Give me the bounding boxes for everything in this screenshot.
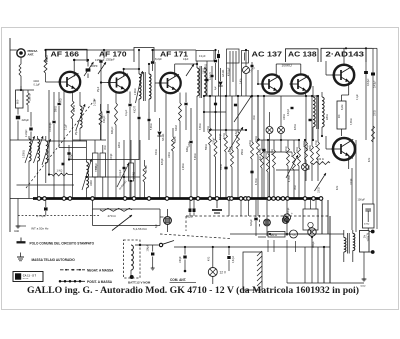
capacitor C12 det bbox=[215, 50, 217, 59]
volume pot arrow long bbox=[234, 95, 252, 122]
svg-text:40Ω77: 40Ω77 bbox=[134, 105, 137, 113]
capacitor 15KpF bbox=[152, 245, 154, 252]
volume pot 470ohm box bbox=[93, 200, 161, 209]
mid column 124 bbox=[123, 140, 125, 199]
antenna jack PRESA ANT. bbox=[17, 49, 25, 57]
tuning coil L4 variable bbox=[45, 136, 47, 141]
horizontal y147 bbox=[59, 147, 86, 149]
wire col49 bbox=[48, 90, 50, 160]
svg-text:110μF: 110μF bbox=[120, 169, 122, 176]
svg-text:AF 166: AF 166 bbox=[51, 49, 80, 58]
svg-text:1 KΩ: 1 KΩ bbox=[57, 169, 63, 173]
AC resistor network bbox=[261, 140, 263, 150]
cap blob row1 bbox=[58, 103, 61, 105]
svg-text:10KΩ: 10KΩ bbox=[203, 68, 205, 74]
wire AF170 collector bbox=[123, 69, 125, 76]
AF171 collector wire bbox=[174, 64, 176, 77]
right rails bbox=[355, 140, 357, 232]
resistor R7 180ohm bbox=[172, 128, 174, 137]
wire left link bbox=[10, 139, 46, 141]
svg-text:10KΩ: 10KΩ bbox=[250, 140, 252, 146]
electrolytic CE2 bbox=[280, 96, 282, 126]
tuning coil L3 variable bbox=[37, 136, 39, 139]
diode D2 AA121 bbox=[220, 68, 222, 81]
transistor Q5 AC138 bbox=[291, 74, 310, 93]
svg-text:13 pF: 13 pF bbox=[199, 54, 206, 58]
wire AF170 base bbox=[101, 82, 110, 84]
svg-text:2,2KΩ: 2,2KΩ bbox=[183, 163, 185, 170]
svg-text:100Ω: 100Ω bbox=[319, 187, 321, 193]
svg-text:800 Ω: 800 Ω bbox=[72, 105, 76, 112]
svg-text:NEGAT. A MASSA: NEGAT. A MASSA bbox=[87, 269, 114, 273]
det caps row bbox=[214, 103, 217, 106]
ground G3 bbox=[152, 266, 154, 268]
IF transformer T2 coils bbox=[138, 50, 140, 74]
capacitor C4 68PF bbox=[86, 68, 91, 71]
legend posit a massa bbox=[59, 280, 85, 282]
long row y247 feed bbox=[174, 246, 330, 248]
svg-text:R.F.: R.F. bbox=[339, 114, 341, 118]
AF171 emitter col bbox=[165, 93, 167, 199]
switch S1 bbox=[159, 243, 162, 246]
capacitor C10 680 bbox=[190, 108, 192, 140]
ground G2 bus bbox=[216, 200, 218, 208]
capacitor C8 8.2pF bbox=[151, 61, 154, 64]
cap 110 bbox=[123, 167, 126, 169]
horiz segs AC bbox=[264, 151, 292, 153]
wire AD143l emitter to output bbox=[351, 168, 353, 230]
svg-text:12 V: 12 V bbox=[220, 271, 227, 275]
capacitor C1 electrolytic 420uF bbox=[17, 108, 19, 115]
svg-text:470Ω: 470Ω bbox=[364, 224, 370, 226]
wire switch feed bbox=[135, 244, 159, 246]
dashed bottom left wire bbox=[18, 215, 100, 217]
resistor R1 330ohm bbox=[27, 90, 29, 93]
transistor Q3 AF171 bbox=[160, 73, 180, 93]
svg-text:322μF: 322μF bbox=[250, 219, 253, 226]
svg-text:600μ: 600μ bbox=[186, 146, 189, 152]
svg-text:330Ω: 330Ω bbox=[156, 149, 158, 155]
mid column 140 bbox=[139, 140, 141, 177]
stubs below bus bbox=[228, 200, 230, 216]
svg-text:5,6μF: 5,6μF bbox=[236, 129, 238, 136]
svg-text:ΩΩΩ: ΩΩΩ bbox=[14, 231, 19, 233]
detector columns bbox=[209, 96, 211, 128]
trimmer arrow A bbox=[84, 62, 94, 76]
svg-text:13μF: 13μF bbox=[183, 58, 189, 61]
capacitor 322uF bbox=[255, 200, 257, 217]
capacitor 0.1uF double bbox=[189, 200, 191, 208]
res 100K mid bbox=[129, 163, 134, 181]
svg-text:0,1μF: 0,1μF bbox=[66, 123, 68, 130]
svg-text:+: + bbox=[291, 212, 293, 216]
speaker terminals bbox=[371, 230, 375, 234]
svg-text:MASSA TELAIO AUTORADIO: MASSA TELAIO AUTORADIO bbox=[32, 258, 76, 262]
res 22K mid bbox=[143, 166, 146, 182]
wire AF171 base bbox=[155, 82, 161, 84]
svg-text:4,7KΩ: 4,7KΩ bbox=[289, 175, 291, 182]
svg-text:13KpF: 13KpF bbox=[180, 256, 182, 263]
svg-text:33KΩ: 33KΩ bbox=[175, 125, 178, 131]
svg-text:1KΩ: 1KΩ bbox=[105, 145, 107, 150]
svg-text:10KΩ: 10KΩ bbox=[297, 147, 299, 153]
wire top right bbox=[366, 47, 372, 49]
wire AF166 top bbox=[46, 49, 87, 51]
wire AD143u emitter bbox=[348, 81, 350, 95]
svg-text:1KΩ: 1KΩ bbox=[254, 115, 256, 120]
resistor 100ohm h bbox=[312, 162, 330, 165]
svg-text:2-22pF: 2-22pF bbox=[93, 98, 96, 106]
horizontal y177 bbox=[86, 176, 140, 178]
svg-text:22 KΩ: 22 KΩ bbox=[146, 165, 148, 172]
wire AD143l base bbox=[326, 148, 333, 150]
electrolytic CE1 bbox=[269, 112, 271, 126]
ground bus thick bbox=[33, 197, 322, 200]
svg-text:100Ω: 100Ω bbox=[375, 110, 377, 116]
transistor Q6 AD143 upper bbox=[334, 65, 354, 85]
label box 2xAD143 bbox=[321, 48, 366, 62]
svg-text:4,7KΩ: 4,7KΩ bbox=[61, 98, 63, 105]
svg-text:0,47μF: 0,47μF bbox=[374, 80, 377, 88]
svg-text:580 Ω: 580 Ω bbox=[270, 233, 277, 237]
svg-text:POSIT. A MASSA: POSIT. A MASSA bbox=[87, 280, 113, 284]
capacitor C2 47uF bbox=[67, 152, 70, 155]
svg-text:6μF: 6μF bbox=[156, 223, 158, 228]
svg-text:AF 171: AF 171 bbox=[160, 49, 188, 58]
svg-text:8,2KΩ: 8,2KΩ bbox=[195, 153, 197, 160]
wire top left horizontal bbox=[10, 49, 17, 51]
verticals below bus right bbox=[304, 200, 306, 209]
wires into transformer bbox=[323, 247, 325, 283]
svg-text:0,47μF: 0,47μF bbox=[367, 78, 370, 86]
svg-text:10KΩ: 10KΩ bbox=[208, 126, 210, 132]
svg-text:10.000pF: 10.000pF bbox=[49, 121, 52, 132]
svg-text:5KΩ: 5KΩ bbox=[309, 165, 311, 170]
wire AF171 top rail bbox=[154, 49, 196, 51]
legend massa telaio bbox=[20, 253, 22, 257]
svg-text:4Ω: 4Ω bbox=[363, 235, 366, 238]
electrolytic CE6 bbox=[264, 219, 271, 226]
svg-text:47KΩ: 47KΩ bbox=[224, 133, 226, 139]
bus junction rings bbox=[37, 197, 41, 201]
horizontal y140 b bbox=[73, 139, 106, 141]
top feed wires detector bbox=[206, 61, 208, 96]
resistor box R82 bbox=[337, 101, 346, 129]
caps row AC bbox=[291, 107, 294, 109]
ground G1 bbox=[17, 140, 19, 224]
pot arrow bias bbox=[315, 173, 327, 191]
svg-text:4,7KΩ: 4,7KΩ bbox=[316, 140, 318, 147]
cap under IF bbox=[138, 117, 141, 119]
svg-text:8,2pF: 8,2pF bbox=[155, 57, 162, 61]
coil small box pair bbox=[93, 153, 99, 177]
svg-text:100pF: 100pF bbox=[351, 178, 353, 185]
driver transformer T4 bbox=[312, 86, 314, 97]
resistor R5 52K bbox=[100, 104, 102, 111]
capacitor C7 1350pF bbox=[103, 50, 105, 59]
svg-text:47Ω: 47Ω bbox=[209, 256, 211, 261]
svg-text:5KΩ: 5KΩ bbox=[292, 152, 294, 157]
horizontal y159 bbox=[69, 159, 139, 161]
svg-text:3,3KΩ: 3,3KΩ bbox=[260, 148, 262, 155]
mid column 135 bbox=[134, 160, 136, 199]
svg-text:GALLO ing. G. - Autoradio: GALLO ing. G. - Autoradio Mod. GK 4710 -… bbox=[27, 285, 359, 296]
svg-text:AA121: AA121 bbox=[222, 69, 225, 77]
svg-text:3,3KΩ: 3,3KΩ bbox=[351, 118, 353, 125]
capacitor C 13pF body bbox=[217, 54, 220, 58]
svg-text:25KΩ: 25KΩ bbox=[266, 153, 268, 159]
logo box bbox=[13, 272, 43, 282]
thermistor TH1 bbox=[243, 67, 250, 74]
lamp LP1 bbox=[164, 217, 172, 225]
res 33K bbox=[179, 93, 181, 104]
svg-text:22KΩ: 22KΩ bbox=[256, 136, 258, 142]
svg-text:5,4-56 KΩ: 5,4-56 KΩ bbox=[133, 227, 147, 231]
bus left tail bbox=[10, 198, 33, 200]
svg-text:4,7KΩ: 4,7KΩ bbox=[256, 178, 258, 185]
svg-text:PTΩΩ: PTΩΩ bbox=[290, 234, 296, 236]
svg-text:330 Ω: 330 Ω bbox=[28, 94, 32, 101]
svg-text:15KΩ: 15KΩ bbox=[45, 55, 49, 62]
svg-text:ANT.: ANT. bbox=[28, 53, 35, 57]
svg-text:COM. ANT.: COM. ANT. bbox=[170, 278, 186, 282]
res right rail bbox=[372, 126, 375, 142]
svg-text:180 Ω: 180 Ω bbox=[174, 136, 177, 143]
capacitor C9 bbox=[129, 92, 131, 104]
col 160 wire bbox=[160, 93, 162, 119]
svg-text:2,2KΩ: 2,2KΩ bbox=[135, 88, 137, 95]
svg-text:10KΩ: 10KΩ bbox=[169, 152, 171, 158]
speaker box ALTOP bbox=[360, 231, 370, 253]
svg-text:5,6KΩ: 5,6KΩ bbox=[151, 123, 153, 130]
output coupling box bbox=[303, 209, 318, 230]
svg-text:47KΩ: 47KΩ bbox=[272, 149, 274, 155]
svg-text:47KpF: 47KpF bbox=[162, 158, 164, 165]
lower right verticals bbox=[304, 247, 306, 283]
resistors right of AC138 bbox=[305, 96, 307, 142]
wire AD143l emitter bbox=[348, 155, 350, 169]
svg-text:2-22pF: 2-22pF bbox=[25, 129, 28, 137]
resistor R3 15K bbox=[45, 50, 47, 57]
svg-text:100 Ω: 100 Ω bbox=[317, 158, 324, 161]
svg-text:0,47μF: 0,47μF bbox=[230, 146, 232, 154]
transistor Q1 AF166 bbox=[60, 72, 80, 92]
horizontal det y96 bbox=[204, 95, 258, 97]
svg-text:4,7 KpF: 4,7 KpF bbox=[36, 214, 46, 218]
long row y234 bbox=[230, 233, 344, 235]
wire AC138 emitter bbox=[305, 92, 307, 96]
transistor Q7 AD143 lower bbox=[333, 138, 355, 160]
AF170 columns bbox=[107, 104, 109, 110]
svg-text:25KΩ: 25KΩ bbox=[242, 149, 244, 155]
det horizontals bbox=[210, 129, 246, 131]
svg-text:470 Ω: 470 Ω bbox=[108, 214, 117, 218]
svg-text:400pF: 400pF bbox=[220, 133, 222, 140]
wire left border bbox=[9, 38, 11, 232]
svg-text:56KΩ: 56KΩ bbox=[206, 144, 208, 150]
svg-text:0,1μΩ: 0,1μΩ bbox=[186, 216, 193, 219]
label NF bbox=[19, 225, 26, 227]
svg-text:BA121: BA121 bbox=[162, 133, 165, 141]
wire pot to lamp bbox=[160, 216, 164, 218]
svg-text:10KΩ: 10KΩ bbox=[284, 114, 286, 120]
diode D1 BA121 bbox=[159, 118, 161, 131]
svg-text:0,35KΩ: 0,35KΩ bbox=[24, 150, 26, 158]
resistor R4 800ohm bbox=[72, 91, 74, 101]
mid horizontal y141 bbox=[46, 140, 87, 142]
coil box L7 bbox=[227, 49, 240, 63]
capacitor 0.47 out bbox=[228, 247, 230, 255]
svg-text:100pF: 100pF bbox=[213, 137, 215, 144]
svg-text:8μF: 8μF bbox=[215, 86, 217, 90]
svg-text:15KpF: 15KpF bbox=[148, 244, 150, 251]
svg-text:47Ω: 47Ω bbox=[337, 185, 339, 190]
capacitor right rail bbox=[371, 73, 375, 76]
capacitor C5 10000pF bbox=[53, 92, 55, 120]
svg-text:22KΩ: 22KΩ bbox=[327, 114, 329, 120]
svg-text:56KΩ: 56KΩ bbox=[56, 106, 58, 112]
capacitor 13KpF b bbox=[184, 247, 186, 255]
electrolytic CE7 bbox=[282, 217, 289, 224]
wire AC137 base bbox=[258, 83, 262, 85]
antenna coil L1 box bbox=[16, 90, 24, 108]
trimmer capacitor CT1 bbox=[29, 128, 32, 131]
legend polo comune bbox=[20, 238, 22, 243]
svg-text:400 pF: 400 pF bbox=[103, 115, 106, 123]
horizontal y283 bbox=[287, 282, 364, 284]
svg-text:25μF: 25μF bbox=[76, 129, 78, 135]
electrolytic CE3 bbox=[304, 140, 306, 163]
wire AC coupling bbox=[275, 64, 277, 75]
svg-text:47Ω: 47Ω bbox=[369, 157, 371, 162]
svg-text:8,2Ω: 8,2Ω bbox=[341, 105, 344, 110]
IF transformer T3 bbox=[196, 61, 198, 68]
svg-text:600 pF: 600 pF bbox=[111, 126, 114, 134]
svg-text:600: 600 bbox=[15, 99, 19, 104]
wire 264 bbox=[263, 96, 265, 199]
capacitor small 63 bbox=[62, 163, 65, 166]
oscillator coil L5 bbox=[85, 141, 87, 162]
trimmer arrow B bbox=[98, 62, 106, 74]
legend negat a massa bbox=[60, 269, 85, 271]
wire AD143u base bbox=[326, 74, 334, 76]
battery dashed box bbox=[124, 240, 141, 278]
horiz 96 right bbox=[258, 95, 318, 97]
svg-text:INT a 50x Hz: INT a 50x Hz bbox=[31, 227, 49, 231]
capacitor C11 bbox=[185, 93, 187, 103]
dashed boundary pcb bbox=[186, 215, 330, 217]
svg-text:1KΩ: 1KΩ bbox=[295, 185, 297, 190]
svg-text:400μF: 400μF bbox=[288, 207, 290, 214]
wire input top node bbox=[17, 89, 34, 91]
tuning coil L2 variable bbox=[28, 136, 30, 139]
capacitor box 13pF bbox=[196, 51, 214, 62]
horizontal y185 left bbox=[17, 184, 75, 186]
output transformer T5 bbox=[343, 230, 345, 238]
resistor 580ohm box bbox=[268, 232, 285, 238]
svg-text:100KΩ: 100KΩ bbox=[134, 172, 136, 179]
transistor Q4 AC137 bbox=[262, 74, 281, 93]
electrolytic CE4 bbox=[286, 200, 288, 214]
wire AF166 collector bbox=[73, 60, 75, 77]
svg-text:13KpF: 13KpF bbox=[358, 199, 366, 202]
svg-text:100Ω: 100Ω bbox=[310, 145, 312, 151]
ganging dashed line bbox=[26, 98, 96, 188]
svg-text:180Ω: 180Ω bbox=[90, 180, 93, 186]
wire AF166 base bbox=[46, 81, 61, 83]
svg-text:22KΩ: 22KΩ bbox=[119, 142, 121, 148]
wire det top bbox=[196, 96, 198, 199]
svg-text:CA 11 - S 7: CA 11 - S 7 bbox=[23, 273, 37, 277]
coil L6 mixer bbox=[79, 92, 81, 106]
wire AD top entry bbox=[343, 48, 345, 64]
dashed seg lower bbox=[160, 234, 230, 239]
svg-text:100pF: 100pF bbox=[111, 153, 113, 160]
speaker ground bbox=[363, 252, 365, 277]
svg-text:330Ω: 330Ω bbox=[221, 164, 223, 170]
junction dots scatter bbox=[103, 49, 105, 51]
svg-text:2·AD143: 2·AD143 bbox=[326, 50, 365, 59]
capacitor C3 4.7KpF bbox=[44, 207, 48, 210]
svg-text:420μF: 420μF bbox=[22, 118, 30, 122]
wire antenna lead bbox=[20, 57, 22, 64]
horiz AC y140 bbox=[258, 139, 299, 141]
svg-text:ΩΩΩ: ΩΩΩ bbox=[361, 286, 366, 288]
svg-text:BATT.12 V NOM: BATT.12 V NOM bbox=[128, 281, 151, 285]
svg-text:1350pF: 1350pF bbox=[106, 58, 115, 62]
label box AF166 bbox=[46, 49, 87, 62]
svg-text:0,1μF: 0,1μF bbox=[125, 109, 128, 116]
svg-text:▪▪▪▪ ▪▪▪: ▪▪▪▪ ▪▪▪ bbox=[23, 279, 29, 281]
label box AC138 bbox=[286, 49, 319, 62]
wire base bias bbox=[100, 83, 102, 141]
svg-text:0,1μF: 0,1μF bbox=[34, 84, 41, 87]
svg-text:0,47μF: 0,47μF bbox=[288, 108, 290, 116]
svg-text:POLO COMUNE DEL CIRCUITO STAMP: POLO COMUNE DEL CIRCUITO STAMPATO bbox=[30, 241, 95, 245]
pot arrow mid bbox=[117, 163, 129, 187]
svg-text:AC 138: AC 138 bbox=[288, 50, 317, 59]
lamp 12V bbox=[212, 247, 214, 268]
resistor R2 1K horizontal bbox=[52, 173, 68, 176]
wire emitter AF166 bbox=[63, 92, 65, 199]
svg-text:0,1μF: 0,1μF bbox=[357, 93, 359, 100]
hatched chassis box bbox=[243, 252, 262, 290]
transistor Q2 AF170 bbox=[109, 72, 129, 92]
coil box L8 bbox=[242, 51, 249, 64]
electrolytic CE5 bbox=[308, 228, 316, 236]
wire AF170 top rail bbox=[87, 49, 134, 51]
svg-text:0,47μF: 0,47μF bbox=[233, 255, 235, 263]
verticals mid lower bbox=[295, 241, 297, 252]
svg-text:3,3KΩ: 3,3KΩ bbox=[200, 123, 202, 130]
svg-text:25μF: 25μF bbox=[98, 86, 100, 92]
capacitor 0.47uF right bbox=[365, 48, 367, 71]
svg-text:00000: 00000 bbox=[96, 165, 98, 172]
pot arrow AGC bbox=[286, 155, 298, 178]
pot arrow main bbox=[112, 215, 132, 231]
svg-text:AC 137: AC 137 bbox=[252, 50, 283, 59]
svg-text:47KΩ: 47KΩ bbox=[295, 124, 297, 130]
thermistor PTC1 bbox=[290, 230, 298, 238]
small trimmer arrow right bbox=[186, 64, 194, 76]
IF transformer box T2 top bbox=[134, 48, 154, 63]
svg-text:400μF: 400μF bbox=[306, 144, 309, 151]
svg-text:2,2KΩ: 2,2KΩ bbox=[286, 146, 288, 153]
